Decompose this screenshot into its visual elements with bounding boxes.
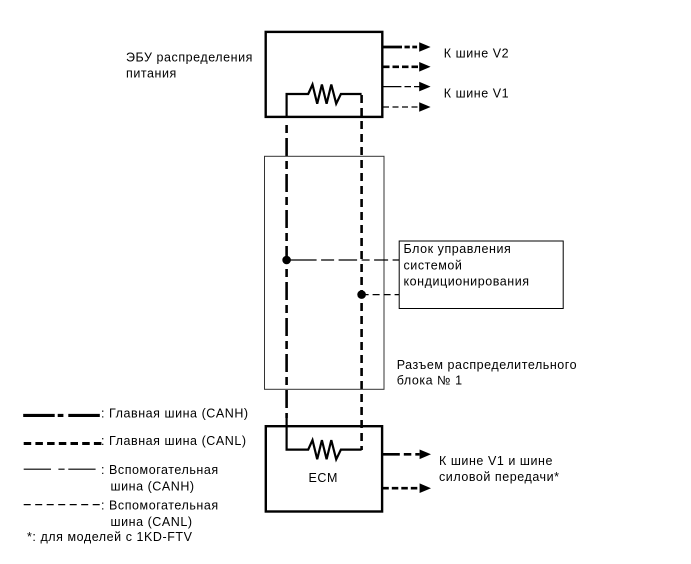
junction block connector no.1 outline — [265, 156, 385, 389]
wire arrow to bus V2 CANL — [383, 65, 420, 68]
legend line main bus CANL — [24, 442, 103, 445]
node B junction CANL — [357, 290, 366, 299]
svg-text:К шине V1 и шине: К шине V1 и шине — [439, 454, 553, 468]
svg-text:: Главная шина (CANL): : Главная шина (CANL) — [101, 434, 247, 448]
block U1 power distribution ECU box — [266, 32, 383, 117]
wire main bus CANL vertical — [360, 95, 363, 450]
svg-text:ECM: ECM — [309, 471, 338, 485]
svg-text:блока № 1: блока № 1 — [397, 373, 463, 387]
resistor R2 terminating (inside ECM) — [287, 418, 362, 459]
block U3 ECM box — [266, 426, 382, 511]
svg-text:кондиционирования: кондиционирования — [404, 275, 530, 289]
svg-text:силовой передачи*: силовой передачи* — [439, 470, 560, 484]
wire CANH branch to A/C control unit — [287, 259, 400, 261]
node A junction CANH — [282, 256, 291, 265]
wire arrow to bus V1/powertrain CANL — [382, 487, 419, 490]
wire arrow to bus V1/powertrain CANH — [382, 453, 419, 456]
wire main bus CANH vertical — [285, 120, 288, 418]
svg-text:К шине V1: К шине V1 — [444, 87, 509, 101]
svg-text:питания: питания — [126, 67, 177, 81]
legend line sub bus CANL — [24, 504, 103, 506]
block U2 air conditioning control unit box — [399, 241, 563, 309]
svg-text:шина (CANL): шина (CANL) — [111, 515, 193, 529]
svg-text:К шине V2: К шине V2 — [444, 47, 509, 61]
svg-text:: Главная шина (CANH): : Главная шина (CANH) — [101, 407, 249, 421]
svg-text:Блок управления: Блок управления — [404, 242, 512, 256]
wire arrow to bus V2 CANH — [383, 46, 420, 49]
resistor R1 terminating (inside U1) — [287, 85, 362, 119]
wire arrow to bus V1 CANL (sub bus) — [383, 106, 420, 108]
svg-text:Разъем распределительного: Разъем распределительного — [397, 358, 577, 372]
legend line main bus CANH — [23, 414, 100, 417]
svg-text:: Вспомогательная: : Вспомогательная — [101, 463, 219, 477]
svg-text:*: для моделей с 1KD-FTV: *: для моделей с 1KD-FTV — [27, 530, 193, 544]
svg-text:шина (CANH): шина (CANH) — [111, 479, 195, 493]
wire CANL branch to A/C control unit — [362, 294, 400, 296]
svg-text:системой: системой — [404, 258, 463, 272]
wire arrow to bus V1 CANH (sub bus) — [383, 86, 420, 88]
svg-text:: Вспомогательная: : Вспомогательная — [101, 499, 219, 513]
legend line sub bus CANH — [24, 468, 97, 470]
svg-text:ЭБУ распределения: ЭБУ распределения — [126, 51, 253, 65]
